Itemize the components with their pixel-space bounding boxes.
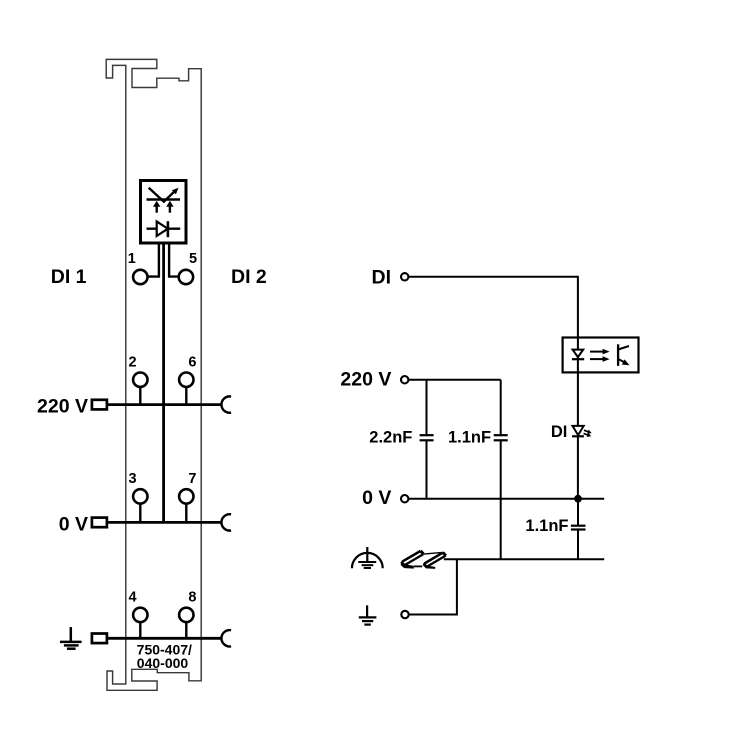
capacitor C2 1.1nF plates	[494, 435, 508, 440]
wire capacitor C1 to 0V	[426, 440, 428, 498]
svg-text:7: 7	[188, 471, 196, 487]
wire DI to optocoupler	[409, 277, 578, 338]
earth bus wire	[444, 558, 604, 560]
LED indicator symbol bar	[147, 198, 181, 200]
wire pin5 to LED box	[169, 243, 179, 277]
contact 1	[133, 270, 147, 284]
junction dot at 0V	[574, 495, 582, 503]
contact 2	[133, 373, 147, 387]
0V row terminal rectangle	[92, 518, 107, 528]
wire capacitor C2 to earth bus	[500, 440, 502, 559]
node 220V terminal circle	[401, 376, 408, 383]
earth row wire	[107, 637, 222, 640]
wire 220V to capacitor C2	[500, 380, 502, 436]
diode D1	[157, 221, 168, 236]
wire LED to 0V junction	[577, 436, 579, 498]
stem contact 8	[185, 622, 187, 638]
LED indicator diagonal arrow	[149, 188, 179, 202]
svg-text:DI 2: DI 2	[231, 266, 267, 288]
LED up arrow 1	[153, 201, 160, 213]
wire 220V to capacitor C1	[426, 380, 428, 436]
svg-text:4: 4	[129, 590, 137, 606]
svg-text:DI: DI	[372, 266, 392, 288]
stem contact 7	[185, 504, 187, 523]
wire 0V rail	[409, 498, 604, 500]
LED DI emission arrow a	[584, 430, 592, 434]
stem contact 3	[139, 504, 141, 523]
contact 7	[179, 489, 193, 503]
svg-text:2: 2	[129, 355, 137, 371]
wire through optocoupler to LED	[577, 338, 579, 427]
svg-text:3: 3	[129, 471, 137, 487]
stem contact 2	[139, 387, 141, 405]
svg-text:2.2nF: 2.2nF	[369, 429, 412, 447]
module earth ground symbol	[60, 627, 82, 649]
svg-text:0 V: 0 V	[362, 487, 391, 509]
svg-text:8: 8	[188, 590, 196, 606]
LED box	[141, 181, 187, 244]
svg-text:040-000: 040-000	[137, 655, 189, 671]
LED DI cathode bar	[572, 435, 584, 437]
capacitor C3 1.1nF plates	[571, 526, 586, 530]
node DI terminal circle	[401, 273, 408, 280]
wire pin1 to LED box	[148, 243, 159, 277]
diode D1 wire	[147, 227, 181, 229]
optocoupler input diode	[573, 350, 584, 358]
noiseless earth symbol	[352, 547, 383, 568]
wire capacitor C3 to earth bus	[577, 530, 579, 560]
220V row power-jumper contact	[221, 396, 231, 412]
svg-text:1.1nF: 1.1nF	[525, 517, 568, 535]
wire 220V rail	[409, 379, 501, 381]
optocoupler phototransistor base bar	[617, 344, 619, 366]
svg-text:DI 1: DI 1	[51, 266, 87, 288]
node earth terminal circle	[401, 611, 408, 618]
plain earth ground symbol	[359, 605, 377, 624]
svg-text:220 V: 220 V	[37, 396, 88, 418]
optocoupler U1 box	[563, 338, 639, 373]
svg-text:1.1nF: 1.1nF	[448, 429, 491, 447]
node 0V terminal circle	[401, 495, 408, 502]
optocoupler phototransistor collector	[618, 346, 629, 350]
contact 3	[133, 489, 147, 503]
contact 4	[133, 608, 147, 622]
contact 8	[179, 608, 193, 622]
module body outline 750-407	[106, 59, 201, 690]
svg-text:1: 1	[128, 251, 136, 267]
stem contact 6	[185, 387, 187, 405]
diode D1 cathode bar	[167, 221, 170, 237]
earth row power-jumper contact	[221, 630, 231, 646]
LED DI indicator	[573, 426, 584, 435]
LED up arrow 2	[166, 201, 173, 213]
optocoupler phototransistor emitter arrow	[618, 359, 629, 365]
wire earth terminal to bus	[409, 559, 457, 614]
stem contact 4	[139, 622, 141, 638]
wire center vertical LED box to 0V row	[162, 243, 165, 522]
svg-text:5: 5	[189, 251, 197, 267]
optocoupler light arrow 1	[590, 349, 610, 355]
wire junction to capacitor C3	[577, 499, 579, 526]
0V row power-jumper contact	[221, 514, 231, 530]
optocoupler input diode cathode bar	[572, 358, 584, 360]
svg-text:DI: DI	[551, 423, 568, 441]
DIN rail symbol	[401, 551, 446, 569]
220V row wire	[107, 403, 222, 406]
capacitor C1 2.2nF plates	[420, 435, 434, 440]
220V row terminal rectangle	[92, 400, 107, 410]
LED DI emission arrow b	[584, 433, 592, 437]
contact 5	[179, 270, 193, 284]
optocoupler light arrow 2	[590, 356, 610, 362]
contact 6	[179, 373, 193, 387]
earth row terminal rectangle	[92, 634, 107, 644]
0V row wire	[107, 521, 222, 524]
svg-text:0 V: 0 V	[59, 514, 88, 536]
svg-text:220 V: 220 V	[340, 369, 391, 391]
svg-text:6: 6	[188, 355, 196, 371]
